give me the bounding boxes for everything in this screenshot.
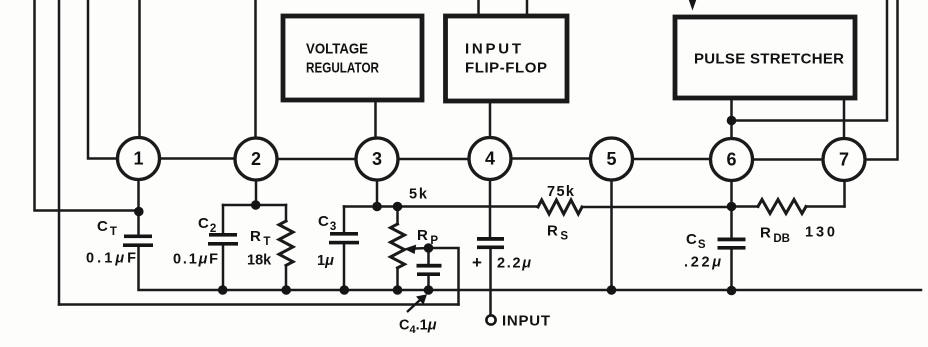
svg-text:+: + (472, 253, 482, 272)
pin circle 6 (711, 139, 753, 181)
svg-text:PULSE STRETCHER: PULSE STRETCHER (694, 51, 844, 68)
svg-text:18k: 18k (247, 253, 272, 269)
resistor RT leads (285, 205, 288, 290)
pin circle 2 (235, 138, 277, 180)
capacitor CT stem upper (137, 212, 140, 235)
wire: C3 / RP top bar and RS rail (344, 205, 538, 208)
junction dot rail CS (727, 286, 737, 296)
pin circle 3 (356, 138, 398, 180)
wire: pin5-pin6 (633, 158, 711, 161)
wire: bottom rail C (223, 289, 921, 292)
wire: pin5 down to bottom rail (610, 180, 613, 290)
svg-text:4: 4 (485, 149, 495, 169)
wire: left feed 2 from top down to bottom rail D (58, 0, 61, 305)
wire: left feed 1 from top to CT node (35, 0, 137, 211)
wire: RP wiper over to rail D (429, 248, 459, 305)
wire: pin2-pin3 (277, 158, 356, 161)
wire: left feed 3 from top to pin 1 left (88, 0, 117, 159)
junction dot rail RP (393, 285, 403, 295)
wire: pulse stretcher bottom to pin 6 (730, 100, 733, 139)
pin circle 4 (469, 138, 511, 180)
resistor RT zigzag 18k (279, 221, 293, 265)
svg-text:3: 3 (372, 149, 382, 169)
svg-text:6: 6 (726, 150, 736, 170)
wire: pin6-pin7 (753, 158, 824, 161)
wire: right feed to node at pulse stretcher bottom (732, 0, 888, 121)
wire: flip-flop to pin 4 (489, 103, 492, 138)
resistor RDB zigzag 130 (758, 200, 806, 214)
svg-text:130: 130 (805, 225, 835, 241)
wire: pulse stretcher input from top (691, 0, 694, 2)
box: INPUT FLIP-FLOP (446, 16, 568, 101)
box: VOLTAGE REGULATOR (283, 16, 422, 100)
junction dot at CS / RDB node (727, 202, 737, 212)
junction dot rail C2 (218, 285, 228, 295)
annotation arrow shaft for C4 (407, 300, 421, 313)
junction dot below pin 2 (251, 200, 261, 210)
wire: feed to pin 2 top (254, 0, 257, 138)
wire: CS cap to bottom rail (730, 249, 733, 291)
capacitor CT plates (124, 235, 152, 239)
capacitor CT stem lower to bottom rail (139, 247, 224, 290)
capacitor CS plates (718, 238, 746, 242)
pin circle 1 (118, 138, 160, 180)
svg-text:REGULATOR: REGULATOR (306, 60, 379, 77)
svg-text:2.2μ: 2.2μ (497, 256, 531, 272)
svg-text:1μ: 1μ (317, 253, 334, 269)
wire: pin4 down to coupling cap (489, 180, 492, 237)
capacitor C3 plates (330, 232, 358, 236)
wire: pin1 down to CT node (137, 180, 140, 212)
wire: feed to pin 1 top (138, 0, 141, 137)
wire: RS rail right segment to CS node (582, 206, 732, 209)
junction dot rail C4 (424, 285, 434, 295)
junction dot rail pin5 (607, 285, 617, 295)
wire: flip-flop top lead A (477, 0, 480, 14)
capacitor 2.2u plates (477, 237, 504, 241)
capacitor C2 stem (222, 205, 225, 290)
svg-text:0.1μF: 0.1μF (173, 252, 218, 268)
wire: RDB right end up to pin 7 (843, 181, 846, 207)
wire: pin4-pin5 (511, 157, 591, 160)
wire: RDB right lead (806, 205, 845, 208)
svg-text:INPUT: INPUT (502, 313, 550, 330)
svg-text:75k: 75k (547, 184, 575, 200)
wire: RP wiper arrow shaft (413, 247, 429, 250)
wire: voltage regulator to pin 3 (374, 102, 377, 138)
svg-text:VOLTAGE: VOLTAGE (306, 41, 368, 58)
junction dot at RP top (393, 202, 403, 212)
svg-text:1: 1 (133, 149, 143, 169)
arrowhead: C4 annotation (416, 294, 427, 305)
box: PULSE STRETCHER (675, 17, 855, 98)
wire: RDB left lead (732, 205, 759, 208)
capacitor C4 plates (417, 264, 442, 268)
wire: far right feed to pin 7 (865, 0, 898, 160)
terminal: INPUT (486, 313, 550, 330)
resistor RP zigzag 5k potentiometer (391, 224, 405, 268)
junction dot below pin 3 (372, 202, 382, 212)
wire: pin3-pin4 (398, 158, 469, 161)
wire: coupling cap to input terminal (489, 249, 492, 315)
wire: C2/RT top bar (223, 204, 286, 207)
svg-text:2: 2 (251, 149, 261, 169)
resistor RP leads (396, 207, 399, 291)
pin circle 5 (591, 138, 633, 180)
junction dot at CT top node (134, 207, 144, 217)
wire: pin3 down to node (376, 180, 379, 207)
wire: pulse stretcher bottom to pin 7 (843, 100, 846, 139)
svg-text:0.1μF: 0.1μF (86, 251, 136, 267)
capacitor C3 stem (343, 207, 346, 291)
junction dot at pulse stretcher bottom node (727, 116, 737, 126)
svg-text:5: 5 (606, 149, 616, 169)
junction dot RP wiper node (424, 243, 434, 253)
resistor RS zigzag 75k (538, 200, 582, 214)
svg-text:INPUT: INPUT (465, 41, 521, 58)
arrowhead: RP wiper (404, 245, 416, 254)
svg-text:5k: 5k (409, 187, 428, 203)
junction dot rail C3 (340, 285, 350, 295)
svg-text:C4.1μ: C4.1μ (399, 318, 437, 337)
wire: pin2 down to C2/RT bar (255, 180, 258, 205)
wire: pin1-pin2 (160, 157, 236, 160)
capacitor C4 stem (427, 248, 430, 290)
pin circle 7 (823, 139, 865, 181)
wire: flip-flop top lead B (526, 0, 529, 14)
junction dot rail RT (281, 285, 291, 295)
wire: pin6 down to CS node (730, 181, 733, 238)
wire: bottom rail D (59, 303, 459, 306)
capacitor C2 plates (209, 233, 237, 237)
svg-text:FLIP-FLOP: FLIP-FLOP (465, 60, 547, 77)
arrowhead: pulse stretcher input (689, 0, 696, 11)
svg-text:7: 7 (839, 150, 849, 170)
